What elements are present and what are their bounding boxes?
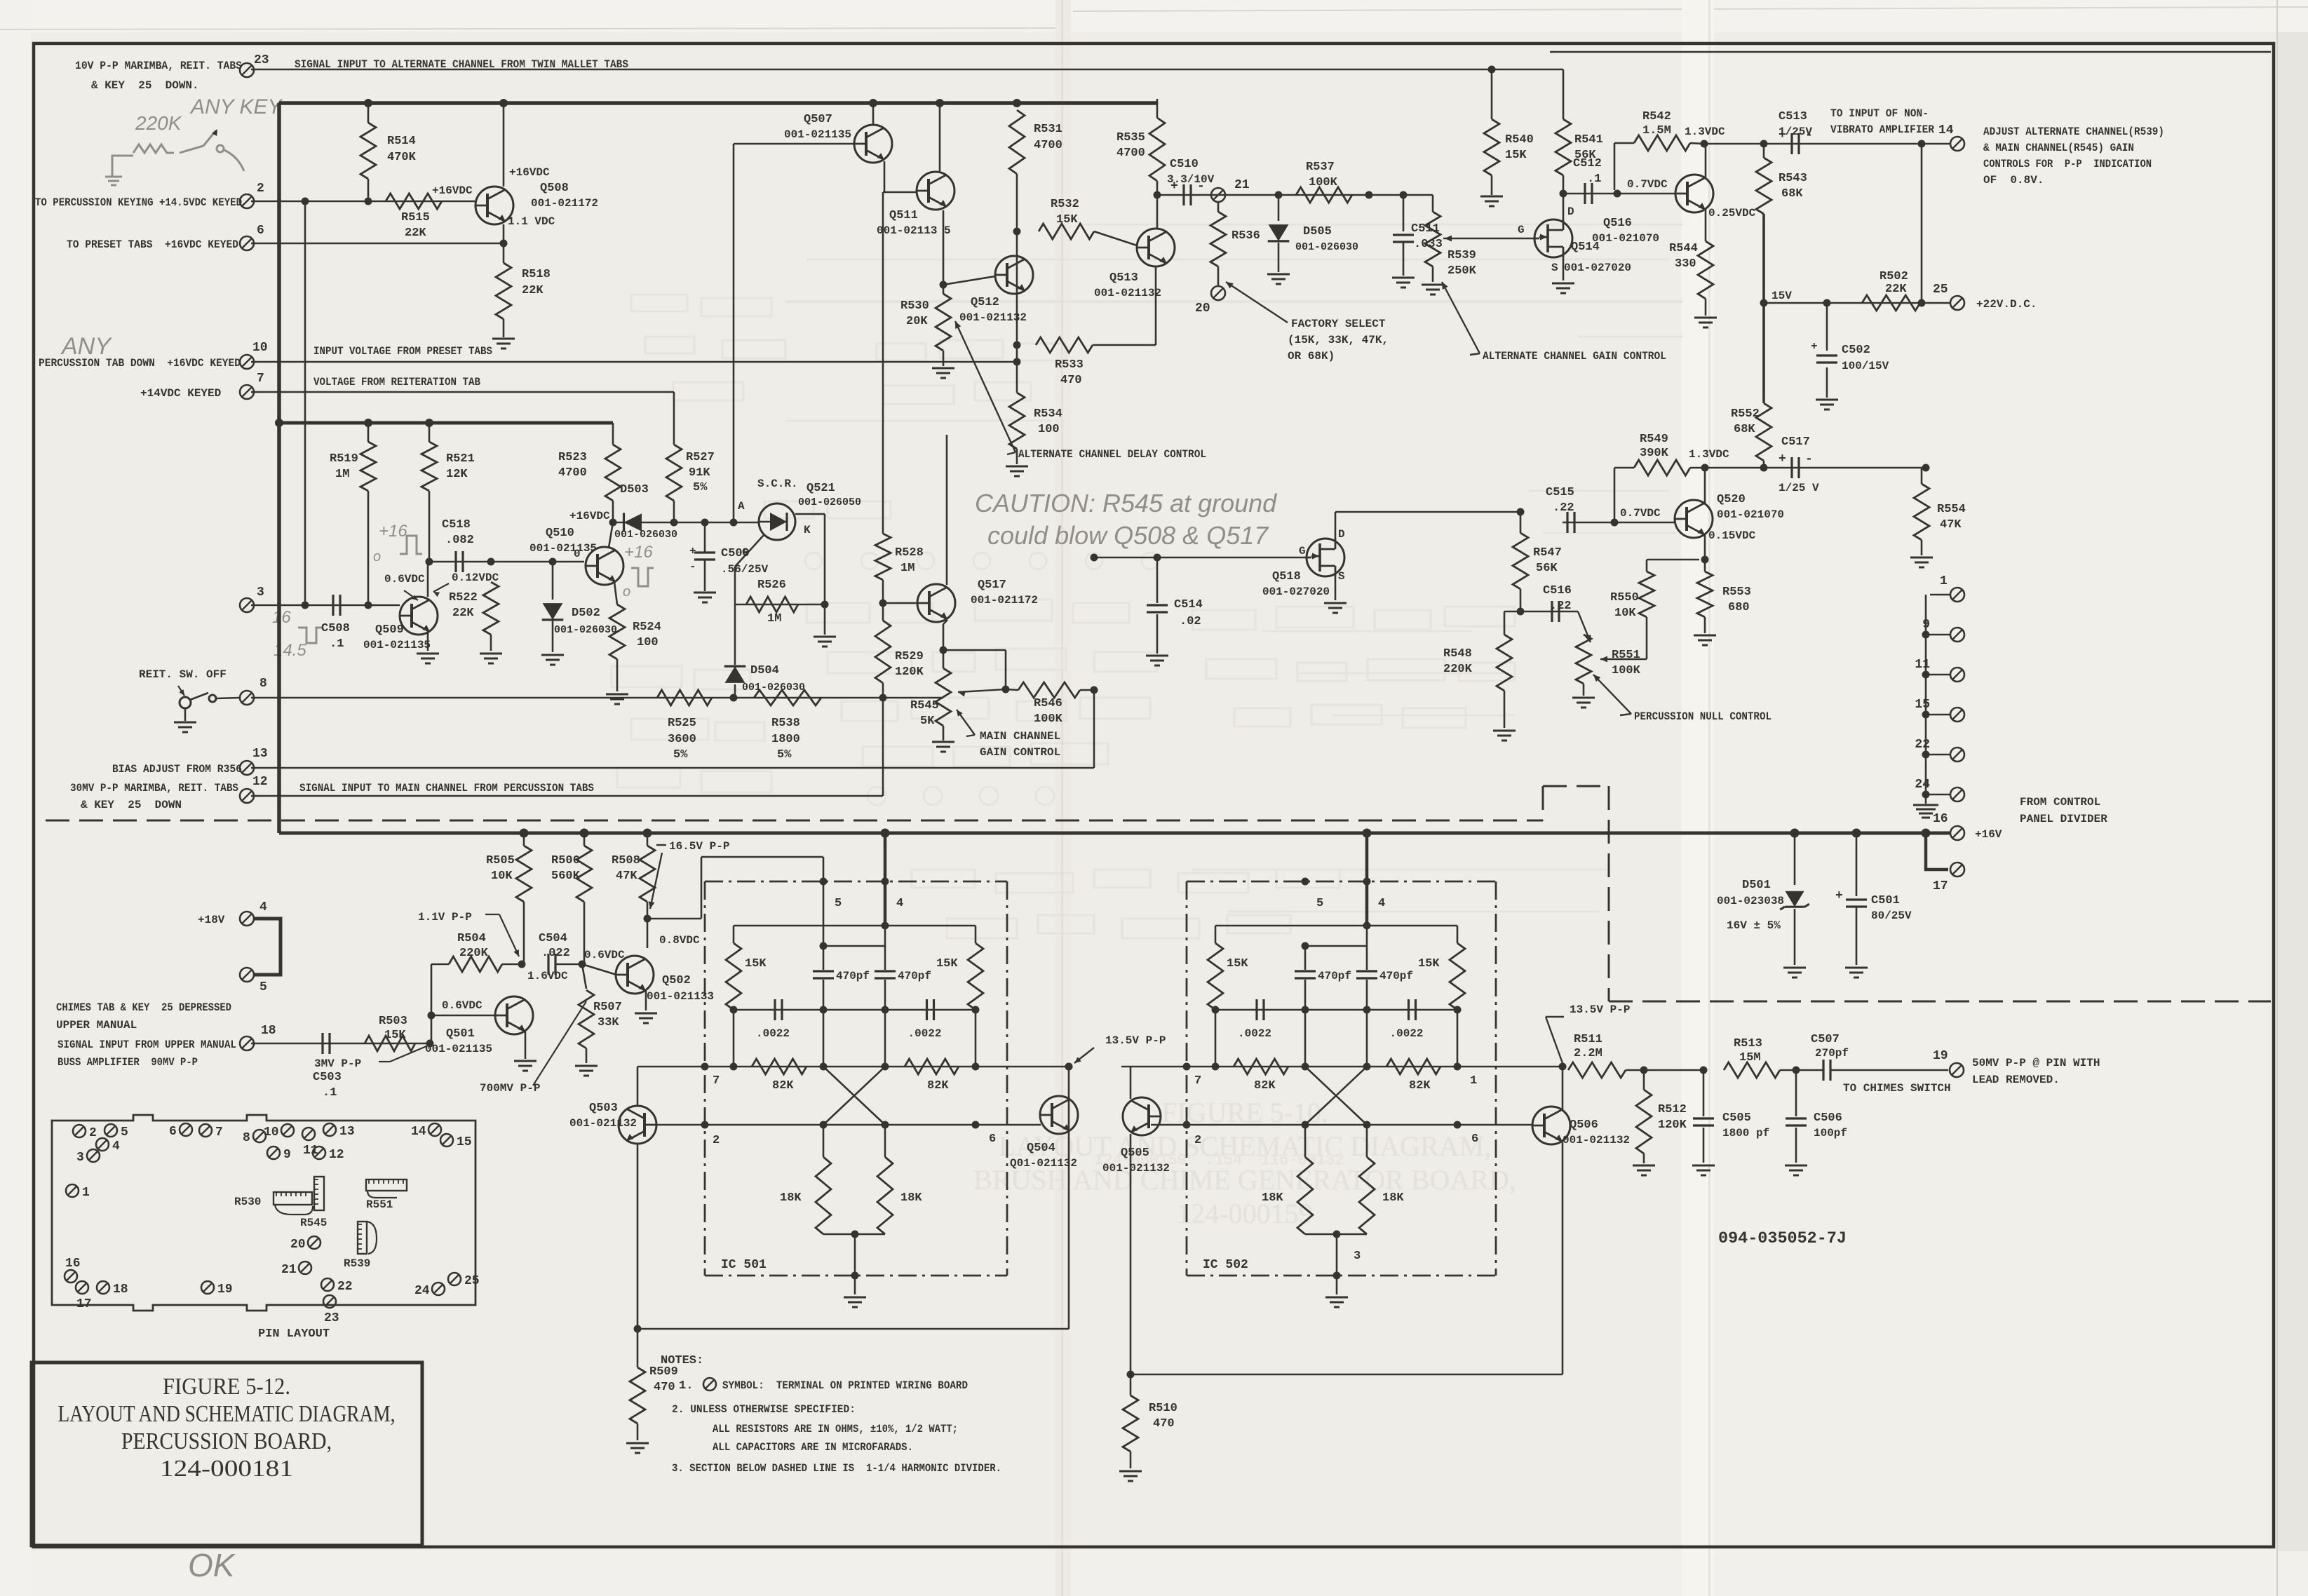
- svg-text:3.3/10V: 3.3/10V: [1167, 173, 1215, 186]
- svg-text:6: 6: [169, 1125, 177, 1139]
- svg-text:R535: R535: [1116, 131, 1145, 144]
- svg-text:C511: C511: [1411, 222, 1440, 236]
- svg-text:16.5V P-P: 16.5V P-P: [669, 840, 729, 853]
- svg-text:5%: 5%: [777, 748, 792, 762]
- svg-text:.0022: .0022: [1390, 1027, 1424, 1040]
- svg-text:C514: C514: [1174, 598, 1203, 611]
- svg-text:4: 4: [112, 1139, 120, 1154]
- svg-text:Q501: Q501: [446, 1027, 475, 1041]
- svg-text:100K: 100K: [1034, 712, 1063, 726]
- svg-text:C501: C501: [1871, 894, 1900, 907]
- svg-text:0.6VDC: 0.6VDC: [442, 999, 482, 1012]
- svg-text:R545: R545: [300, 1217, 327, 1229]
- svg-text:D503: D503: [620, 483, 649, 496]
- svg-text:11: 11: [1915, 658, 1930, 672]
- svg-text:001-021135: 001-021135: [784, 128, 851, 141]
- svg-text:o: o: [623, 584, 630, 600]
- svg-text:C518: C518: [442, 518, 471, 532]
- svg-text:001-026030: 001-026030: [742, 682, 805, 694]
- svg-text:R518: R518: [522, 268, 551, 281]
- svg-text:R508: R508: [612, 854, 640, 867]
- svg-text:R512: R512: [1658, 1103, 1687, 1116]
- svg-text:1M: 1M: [900, 562, 915, 575]
- svg-text:680: 680: [1728, 601, 1750, 614]
- svg-text:S.C.R.: S.C.R.: [757, 478, 798, 490]
- svg-text:R541: R541: [1574, 133, 1603, 147]
- svg-text:INPUT VOLTAGE FROM PRESET TABS: INPUT VOLTAGE FROM PRESET TABS: [313, 345, 492, 358]
- svg-text:23: 23: [254, 53, 269, 67]
- svg-text:R506: R506: [551, 854, 580, 867]
- svg-text:80/25V: 80/25V: [1871, 909, 1912, 922]
- svg-text:.1: .1: [1587, 173, 1601, 186]
- svg-text:PERCUSSION BOARD,: PERCUSSION BOARD,: [121, 1428, 332, 1454]
- svg-text:VIBRATO AMPLIFIER: VIBRATO AMPLIFIER: [1830, 123, 1934, 136]
- svg-text:TO PRESET TABS +16VDC KEYED: TO PRESET TABS +16VDC KEYED: [67, 238, 238, 251]
- svg-text:4: 4: [1378, 897, 1385, 910]
- svg-text:220K: 220K: [459, 947, 489, 960]
- svg-text:3: 3: [257, 586, 264, 600]
- svg-text:+: +: [1779, 452, 1786, 466]
- svg-text:D504: D504: [750, 664, 779, 677]
- svg-text:5: 5: [121, 1125, 128, 1139]
- svg-text:R549: R549: [1640, 433, 1668, 446]
- svg-text:16V ± 5%: 16V ± 5%: [1727, 919, 1781, 932]
- svg-text:5%: 5%: [693, 481, 708, 494]
- svg-text:16: 16: [1933, 812, 1948, 826]
- svg-text:ALL RESISTORS ARE IN OHMS, ±10: ALL RESISTORS ARE IN OHMS, ±10%, 1/2 WAT…: [713, 1423, 958, 1435]
- svg-text:OF 0.8V.: OF 0.8V.: [1983, 174, 2044, 187]
- svg-text:R519: R519: [330, 452, 358, 466]
- svg-text:250K: 250K: [1447, 264, 1477, 278]
- svg-text:0.7VDC: 0.7VDC: [1627, 178, 1668, 191]
- svg-text:220K: 220K: [1443, 663, 1473, 676]
- svg-text:R542: R542: [1642, 110, 1671, 123]
- svg-text:1: 1: [1940, 574, 1948, 588]
- svg-text:Q520: Q520: [1717, 493, 1746, 506]
- svg-text:001-026030: 001-026030: [614, 529, 677, 541]
- svg-text:Q513: Q513: [1109, 271, 1138, 285]
- svg-text:100: 100: [637, 636, 659, 649]
- svg-text:001-027020: 001-027020: [1564, 262, 1631, 274]
- svg-text:001-026030: 001-026030: [554, 624, 617, 636]
- svg-text:D: D: [1567, 205, 1574, 218]
- svg-text:13: 13: [339, 1125, 355, 1139]
- svg-text:270pf: 270pf: [1815, 1047, 1849, 1060]
- svg-text:R534: R534: [1034, 407, 1062, 421]
- svg-text:.082: .082: [445, 534, 474, 547]
- svg-text:R530: R530: [234, 1196, 261, 1208]
- svg-text:470pf: 470pf: [836, 970, 870, 982]
- svg-text:25: 25: [464, 1274, 480, 1288]
- svg-text:001-021132: 001-021132: [1094, 287, 1161, 299]
- svg-text:001-027020: 001-027020: [1262, 586, 1330, 598]
- svg-text:PIN LAYOUT: PIN LAYOUT: [258, 1327, 330, 1341]
- svg-text:R539: R539: [344, 1257, 370, 1270]
- svg-text:NOTES:: NOTES:: [661, 1354, 703, 1367]
- svg-text:3. SECTION BELOW DASHED LINE I: 3. SECTION BELOW DASHED LINE IS 1-1/4 HA…: [672, 1462, 1001, 1475]
- svg-text:20K: 20K: [906, 315, 928, 328]
- svg-text:LAYOUT AND SCHEMATIC DIAGRAM,: LAYOUT AND SCHEMATIC DIAGRAM,: [58, 1401, 396, 1427]
- svg-text:6: 6: [989, 1132, 996, 1146]
- svg-text:120K: 120K: [1658, 1118, 1687, 1132]
- svg-text:8: 8: [243, 1131, 250, 1145]
- svg-text:18: 18: [113, 1283, 128, 1297]
- svg-text:Q517: Q517: [978, 579, 1006, 592]
- svg-text:C503: C503: [313, 1071, 342, 1084]
- svg-text:3MV P-P: 3MV P-P: [314, 1057, 361, 1070]
- svg-text:1.: 1.: [679, 1379, 693, 1393]
- svg-text:7: 7: [1194, 1074, 1201, 1088]
- svg-text:C506: C506: [1814, 1111, 1842, 1125]
- svg-text:22: 22: [337, 1280, 353, 1294]
- svg-text:1.5M: 1.5M: [1642, 124, 1671, 137]
- svg-text:R521: R521: [446, 452, 475, 466]
- svg-text:1M: 1M: [335, 468, 349, 481]
- svg-text:.1: .1: [323, 1086, 337, 1100]
- svg-text:FIGURE 5-12.: FIGURE 5-12.: [163, 1374, 290, 1400]
- svg-text:1.3VDC: 1.3VDC: [1689, 448, 1729, 461]
- svg-text:Q511: Q511: [889, 209, 918, 222]
- svg-text:700MV P-P: 700MV P-P: [480, 1082, 540, 1095]
- svg-text:470: 470: [654, 1381, 675, 1394]
- svg-text:OK: OK: [188, 1547, 236, 1583]
- svg-text:22: 22: [1915, 738, 1930, 752]
- svg-text:+14VDC KEYED: +14VDC KEYED: [140, 387, 221, 400]
- svg-text:15K: 15K: [1418, 957, 1440, 971]
- svg-text:R552: R552: [1731, 407, 1760, 421]
- svg-text:S: S: [1551, 262, 1558, 274]
- svg-text:.22: .22: [1550, 600, 1572, 613]
- svg-text:R524: R524: [633, 621, 661, 634]
- svg-text:IC 502: IC 502: [1203, 1258, 1248, 1272]
- svg-text:1/25V: 1/25V: [1779, 126, 1812, 138]
- svg-text:C510: C510: [1170, 158, 1199, 171]
- svg-text:001-021132: 001-021132: [1102, 1162, 1170, 1175]
- svg-text:C504: C504: [539, 932, 567, 945]
- svg-text:19: 19: [217, 1283, 233, 1297]
- svg-text:470: 470: [1153, 1417, 1175, 1431]
- svg-text:21: 21: [281, 1263, 297, 1277]
- svg-text:Q516: Q516: [1603, 217, 1632, 230]
- svg-text:56K: 56K: [1536, 562, 1558, 575]
- svg-text:Q509: Q509: [375, 623, 404, 637]
- svg-text:+16V: +16V: [1975, 828, 2002, 841]
- svg-text:15K: 15K: [384, 1029, 406, 1042]
- svg-text:12K: 12K: [446, 468, 468, 481]
- svg-text:R537: R537: [1306, 161, 1335, 174]
- svg-text:001-021132: 001-021132: [1563, 1134, 1630, 1147]
- svg-text:15: 15: [457, 1135, 472, 1149]
- svg-text:R510: R510: [1149, 1402, 1177, 1415]
- svg-text:R511: R511: [1574, 1033, 1602, 1046]
- svg-text:Q518: Q518: [1272, 570, 1301, 583]
- svg-text:094-035052-7J: 094-035052-7J: [1718, 1229, 1847, 1247]
- svg-text:R544: R544: [1669, 242, 1698, 255]
- svg-text:20: 20: [290, 1238, 306, 1252]
- svg-text:124-000159: 124-000159: [1177, 1198, 1312, 1229]
- svg-text:R515: R515: [401, 211, 430, 224]
- svg-text:001-023038: 001-023038: [1717, 895, 1784, 907]
- svg-text:R526: R526: [757, 579, 786, 592]
- svg-text:330: 330: [1675, 257, 1696, 271]
- svg-text:2: 2: [1194, 1134, 1201, 1147]
- svg-text:14: 14: [411, 1125, 426, 1139]
- svg-text:25: 25: [1933, 283, 1948, 297]
- svg-text:22K: 22K: [1885, 283, 1907, 296]
- svg-text:2. UNLESS OTHERWISE SPECIFIED:: 2. UNLESS OTHERWISE SPECIFIED:: [672, 1403, 856, 1416]
- svg-text:Q521: Q521: [807, 482, 835, 495]
- svg-text:R547: R547: [1533, 546, 1562, 560]
- svg-text:R543: R543: [1779, 172, 1807, 185]
- svg-text:R528: R528: [895, 546, 924, 560]
- svg-text:82K: 82K: [927, 1079, 949, 1093]
- svg-text:30MV P-P MARIMBA, REIT. TABS: 30MV P-P MARIMBA, REIT. TABS: [70, 782, 238, 794]
- svg-text:124-000181: 124-000181: [160, 1456, 293, 1482]
- svg-text:001-021070: 001-021070: [1717, 508, 1784, 521]
- svg-text:R522: R522: [449, 591, 478, 604]
- svg-text:R530: R530: [900, 299, 929, 313]
- svg-text:001-021070: 001-021070: [1592, 232, 1659, 245]
- svg-text:CONTROLS FOR P-P INDICATION: CONTROLS FOR P-P INDICATION: [1983, 158, 2152, 170]
- svg-text:TO PERCUSSION KEYING +14.5VDC: TO PERCUSSION KEYING +14.5VDC KEYED: [35, 196, 242, 209]
- svg-text:5%: 5%: [673, 748, 688, 762]
- svg-text:7: 7: [257, 372, 264, 386]
- svg-text:9: 9: [1922, 618, 1930, 632]
- svg-text:R507: R507: [593, 1001, 622, 1014]
- svg-text:3600: 3600: [668, 733, 696, 746]
- svg-text:18K: 18K: [900, 1191, 922, 1205]
- svg-text:82K: 82K: [1409, 1079, 1431, 1093]
- svg-text:C507: C507: [1811, 1033, 1840, 1046]
- svg-text:2: 2: [713, 1134, 720, 1147]
- svg-text:7: 7: [215, 1125, 223, 1139]
- svg-text:C512: C512: [1573, 157, 1602, 170]
- svg-text:6: 6: [1471, 1132, 1478, 1146]
- svg-text:15K: 15K: [1227, 957, 1248, 971]
- svg-text:2.2M: 2.2M: [1574, 1047, 1602, 1060]
- svg-text:(15K, 33K, 47K,: (15K, 33K, 47K,: [1288, 334, 1389, 346]
- svg-text:Q512: Q512: [971, 296, 999, 309]
- svg-text:Q505: Q505: [1121, 1147, 1149, 1160]
- svg-text:G: G: [1518, 224, 1525, 236]
- svg-text:+18V: +18V: [198, 914, 225, 926]
- svg-text:ALTERNATE CHANNEL DELAY CONTRO: ALTERNATE CHANNEL DELAY CONTROL: [1018, 448, 1206, 461]
- svg-text:R525: R525: [668, 717, 696, 730]
- svg-text:100/15V: 100/15V: [1842, 360, 1889, 372]
- svg-text:CAUTION: R545 at ground: CAUTION: R545 at ground: [975, 489, 1277, 518]
- svg-text:+: +: [689, 545, 696, 557]
- svg-text:R545: R545: [910, 699, 939, 712]
- svg-text:5: 5: [835, 897, 842, 910]
- svg-text:TO INPUT OF NON-: TO INPUT OF NON-: [1830, 107, 1929, 120]
- svg-text:D: D: [1338, 528, 1345, 541]
- svg-text:470pf: 470pf: [898, 970, 931, 982]
- svg-text:4: 4: [259, 900, 267, 914]
- svg-text:1800: 1800: [771, 733, 800, 746]
- svg-text:14: 14: [1938, 123, 1954, 137]
- svg-text:1.1V P-P: 1.1V P-P: [418, 911, 472, 924]
- svg-text:.22: .22: [1553, 501, 1574, 515]
- svg-text:BUSS AMPLIFIER 90MV P-P: BUSS AMPLIFIER 90MV P-P: [58, 1056, 198, 1069]
- svg-text:13.5V P-P: 13.5V P-P: [1570, 1003, 1630, 1016]
- svg-text:6: 6: [257, 224, 264, 238]
- svg-text:1: 1: [1470, 1074, 1477, 1088]
- svg-text:+16VDC: +16VDC: [432, 184, 473, 197]
- svg-text:15K: 15K: [1056, 213, 1078, 226]
- svg-text:5: 5: [1316, 897, 1323, 910]
- svg-text:CHIMES TAB & KEY 25 DEPRESSED: CHIMES TAB & KEY 25 DEPRESSED: [56, 1001, 231, 1014]
- svg-text:R536: R536: [1231, 229, 1260, 243]
- svg-text:91K: 91K: [689, 466, 710, 480]
- svg-text:13.5V P-P: 13.5V P-P: [1105, 1034, 1166, 1047]
- svg-text:100pf: 100pf: [1814, 1127, 1847, 1139]
- svg-text:47K: 47K: [616, 870, 637, 883]
- svg-text:100K: 100K: [1309, 176, 1338, 189]
- svg-text:OR 68K): OR 68K): [1288, 350, 1335, 363]
- svg-text:R529: R529: [895, 650, 924, 663]
- svg-text:C502: C502: [1842, 344, 1870, 357]
- svg-text:R539: R539: [1447, 249, 1476, 262]
- svg-text:0.7VDC: 0.7VDC: [1620, 507, 1661, 520]
- svg-text:3: 3: [1354, 1250, 1361, 1263]
- svg-text:82K: 82K: [1254, 1079, 1276, 1093]
- svg-text:ANY: ANY: [60, 333, 112, 360]
- svg-text:10: 10: [264, 1125, 279, 1139]
- svg-text:24: 24: [414, 1284, 430, 1298]
- svg-text:68K: 68K: [1781, 187, 1803, 201]
- svg-text:Q01-021132: Q01-021132: [1010, 1157, 1077, 1170]
- svg-text:1.6VDC: 1.6VDC: [527, 970, 568, 982]
- svg-text:001-02113 5: 001-02113 5: [877, 224, 951, 237]
- svg-text:C513: C513: [1779, 110, 1807, 123]
- svg-text:8: 8: [259, 677, 267, 691]
- svg-text:R505: R505: [486, 854, 515, 867]
- svg-text:S: S: [1338, 570, 1345, 583]
- svg-text:.1: .1: [330, 637, 344, 651]
- svg-text:18K: 18K: [1262, 1191, 1283, 1205]
- svg-text:R533: R533: [1055, 358, 1084, 372]
- svg-text:22K: 22K: [522, 284, 544, 297]
- svg-text:R532: R532: [1051, 198, 1079, 211]
- svg-text:001-021135: 001-021135: [425, 1043, 492, 1055]
- svg-text:100: 100: [1038, 423, 1060, 436]
- svg-text:FACTORY SELECT: FACTORY SELECT: [1291, 318, 1386, 330]
- svg-text:.02: .02: [1180, 615, 1201, 628]
- svg-text:R548: R548: [1443, 647, 1472, 661]
- svg-text:A: A: [738, 500, 745, 513]
- svg-text:K: K: [804, 524, 811, 536]
- svg-text:R546: R546: [1034, 697, 1062, 710]
- svg-text:22K: 22K: [452, 607, 474, 620]
- svg-text:17: 17: [1933, 879, 1948, 893]
- svg-text:Q504: Q504: [1027, 1142, 1055, 1155]
- svg-text:SIGNAL INPUT TO MAIN CHANNEL F: SIGNAL INPUT TO MAIN CHANNEL FROM PERCUS…: [299, 782, 594, 794]
- svg-text:20: 20: [1195, 302, 1210, 316]
- svg-text:+16: +16: [624, 543, 653, 562]
- svg-text:10K: 10K: [1614, 607, 1636, 620]
- svg-text:GAIN CONTROL: GAIN CONTROL: [980, 746, 1060, 759]
- svg-text:o: o: [373, 549, 381, 564]
- svg-text:MAIN CHANNEL: MAIN CHANNEL: [980, 730, 1060, 743]
- svg-text:D505: D505: [1303, 225, 1332, 238]
- svg-text:VOLTAGE FROM REITERATION TAB: VOLTAGE FROM REITERATION TAB: [313, 376, 480, 388]
- svg-text:4700: 4700: [1034, 139, 1062, 152]
- svg-text:.56/25V: .56/25V: [721, 563, 769, 576]
- svg-text:0.6VDC: 0.6VDC: [384, 573, 425, 586]
- svg-text:10K: 10K: [491, 870, 513, 883]
- svg-text:68K: 68K: [1734, 423, 1755, 436]
- svg-text:+16VDC: +16VDC: [509, 166, 550, 179]
- svg-text:0.25VDC: 0.25VDC: [1708, 207, 1756, 219]
- svg-text:001-021135: 001-021135: [363, 639, 431, 651]
- svg-text:+: +: [1835, 889, 1843, 903]
- svg-text:15K: 15K: [1505, 149, 1527, 162]
- svg-text:& KEY 25 DOWN.: & KEY 25 DOWN.: [91, 79, 199, 92]
- svg-text:001-026030: 001-026030: [1295, 241, 1358, 253]
- svg-text:1: 1: [82, 1186, 90, 1200]
- svg-text:10V P-P MARIMBA, REIT. TABS: 10V P-P MARIMBA, REIT. TABS: [75, 60, 242, 72]
- svg-text:470pf: 470pf: [1318, 970, 1351, 982]
- svg-text:C508: C508: [321, 622, 350, 635]
- svg-text:+22V.D.C.: +22V.D.C.: [1976, 298, 2037, 311]
- svg-text:IC 501: IC 501: [721, 1258, 767, 1272]
- svg-text:560K: 560K: [551, 870, 581, 883]
- svg-text:15M: 15M: [1739, 1051, 1761, 1064]
- svg-text:15: 15: [1915, 698, 1930, 712]
- svg-text:+: +: [1811, 340, 1818, 353]
- svg-text:-: -: [689, 560, 696, 573]
- svg-text:SYMBOL: TERMINAL ON PRINTED W: SYMBOL: TERMINAL ON PRINTED WIRING BOARD: [722, 1379, 968, 1392]
- svg-text:C517: C517: [1781, 435, 1810, 449]
- svg-text:1.3VDC: 1.3VDC: [1685, 126, 1725, 138]
- svg-text:TO CHIMES SWITCH: TO CHIMES SWITCH: [1843, 1082, 1951, 1095]
- svg-text:5K: 5K: [920, 715, 935, 728]
- svg-text:17: 17: [76, 1297, 92, 1311]
- svg-text:001-021172: 001-021172: [971, 594, 1038, 607]
- svg-text:Q506: Q506: [1570, 1118, 1598, 1132]
- svg-text:.0022: .0022: [756, 1027, 790, 1040]
- svg-text:ALTERNATE CHANNEL GAIN CONTROL: ALTERNATE CHANNEL GAIN CONTROL: [1483, 350, 1666, 363]
- svg-text:D501: D501: [1742, 879, 1771, 892]
- svg-text:24: 24: [1915, 778, 1930, 792]
- svg-text:R504: R504: [457, 932, 486, 945]
- svg-text:R527: R527: [686, 451, 715, 464]
- svg-text:33K: 33K: [598, 1016, 619, 1029]
- svg-text:Q514: Q514: [1571, 241, 1600, 254]
- svg-text:10: 10: [252, 341, 268, 355]
- svg-text:R540: R540: [1505, 133, 1534, 147]
- svg-text:220K: 220K: [135, 112, 182, 134]
- svg-text:BIAS ADJUST FROM R356: BIAS ADJUST FROM R356: [112, 763, 242, 776]
- svg-text:15K: 15K: [745, 957, 767, 971]
- svg-text:R538: R538: [771, 717, 800, 730]
- svg-text:Q502: Q502: [662, 974, 691, 987]
- svg-text:15V: 15V: [1772, 290, 1792, 302]
- svg-text:7: 7: [713, 1074, 720, 1088]
- svg-text:4: 4: [896, 897, 903, 910]
- svg-text:D502: D502: [572, 607, 600, 620]
- svg-text:R514: R514: [387, 135, 416, 148]
- svg-text:R553: R553: [1722, 586, 1751, 599]
- svg-text:82K: 82K: [772, 1079, 794, 1093]
- svg-text:22K: 22K: [405, 226, 426, 240]
- svg-text:18K: 18K: [1382, 1191, 1404, 1205]
- svg-text:Q510: Q510: [546, 527, 574, 540]
- svg-text:47K: 47K: [1940, 518, 1962, 532]
- svg-text:16: 16: [272, 608, 291, 627]
- svg-text:LEAD REMOVED.: LEAD REMOVED.: [1972, 1074, 2060, 1086]
- svg-text:Q507: Q507: [804, 113, 832, 126]
